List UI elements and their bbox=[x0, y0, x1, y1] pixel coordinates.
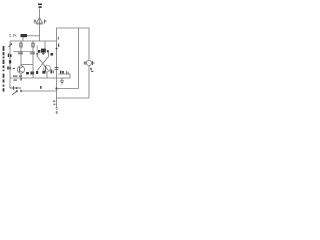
transistor Q2 bbox=[44, 65, 51, 72]
label marks above battery bbox=[13, 76, 22, 81]
wire column 3 bbox=[32, 41, 34, 78]
junction blob on left vertical bbox=[9, 60, 11, 64]
wire bbox=[36, 55, 38, 57]
label cluster bbox=[26, 72, 34, 75]
capacitor C1 bbox=[18, 52, 23, 54]
wire bbox=[39, 9, 41, 18]
node junction bbox=[55, 87, 57, 89]
wire left vertical bbox=[9, 41, 11, 88]
label bbox=[60, 71, 64, 74]
wire row link bbox=[13, 51, 33, 53]
label bbox=[58, 44, 59, 47]
ground bbox=[60, 78, 64, 84]
resistor R1 value 2.1k bbox=[9, 33, 17, 38]
battery B1 bbox=[10, 86, 21, 90]
wire bbox=[27, 35, 40, 37]
potentiometer arrow bbox=[9, 44, 13, 48]
label bbox=[7, 67, 15, 70]
label below terminal bbox=[56, 111, 58, 114]
label bbox=[90, 68, 93, 72]
wire column 2 bbox=[20, 41, 22, 66]
wire column 4 bbox=[44, 41, 46, 52]
wire right outer bbox=[78, 28, 80, 89]
node VCC label bbox=[38, 4, 42, 8]
capacitor C4 bbox=[42, 52, 45, 55]
resistor R1 body bbox=[21, 34, 28, 37]
wire bottom bbox=[57, 97, 90, 99]
resistor body on column 3 bbox=[32, 43, 34, 47]
capacitor C3 bbox=[36, 53, 39, 56]
resistor body on column 2 bbox=[20, 43, 22, 47]
node junction bbox=[56, 48, 58, 50]
wire bottom rail bbox=[10, 77, 71, 79]
label bbox=[8, 54, 12, 58]
switch arrow bbox=[12, 91, 18, 96]
wire bbox=[59, 74, 71, 78]
wire stub bbox=[36, 46, 38, 53]
node junction bbox=[20, 90, 22, 92]
label bbox=[58, 37, 59, 40]
wire cross coupling bbox=[37, 57, 48, 71]
speaker LS1 bbox=[34, 18, 47, 25]
earphone symbol bbox=[84, 58, 95, 98]
capacitor C2 bbox=[30, 52, 35, 54]
wire bbox=[56, 98, 58, 108]
wire bbox=[46, 72, 48, 78]
label marks bbox=[36, 70, 54, 75]
label above ground rail bbox=[40, 86, 42, 89]
svg-text:2.1k: 2.1k bbox=[9, 33, 17, 38]
wire bbox=[22, 37, 24, 41]
wire ground rail bbox=[21, 90, 57, 92]
label bbox=[51, 53, 54, 56]
wire bbox=[56, 78, 58, 98]
caption rotated text bbox=[3, 46, 5, 92]
wire bbox=[39, 24, 41, 41]
capacitor C6 plates bbox=[66, 71, 68, 75]
wire cross coupling bbox=[37, 57, 48, 71]
label resistors row bbox=[38, 50, 40, 53]
terminal bbox=[56, 108, 59, 110]
wire bbox=[20, 73, 22, 78]
wire bbox=[48, 52, 50, 57]
transistor Q1 bbox=[17, 66, 24, 73]
capacitor C5 bbox=[55, 68, 59, 70]
wire top rail bbox=[10, 40, 57, 42]
wire base link bbox=[21, 64, 33, 66]
wire bbox=[57, 88, 79, 90]
wire column 5 bbox=[56, 48, 58, 78]
tick below rail bbox=[20, 78, 21, 81]
wire upper right rail bbox=[57, 28, 90, 58]
label bbox=[53, 101, 55, 106]
